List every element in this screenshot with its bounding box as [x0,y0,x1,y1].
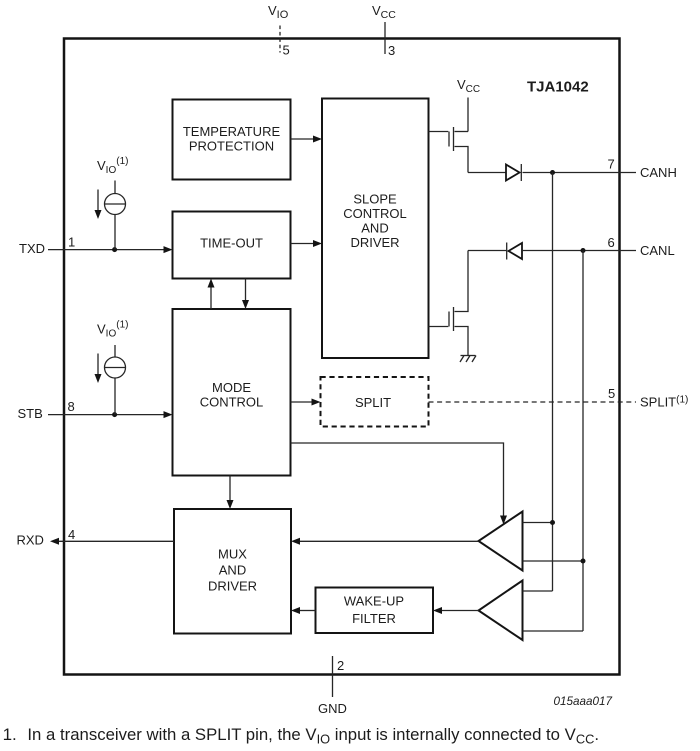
block: SLOPE CONTROL AND DRIVER [322,99,429,359]
svg-text:CONTROL: CONTROL [343,206,407,221]
arrowhead out of RXD [50,538,59,545]
transistor Q2 drain wire up to CANL [455,251,469,312]
svg-text:2: 2 [337,658,344,673]
arrowhead into WAKE-UP FILTER [433,607,442,614]
current source I2 bar [105,367,126,369]
pin 2 GND stub wire [332,656,334,697]
op-amp U2 output wire to WAKE-UP FILTER [442,610,479,612]
outer IC boundary box [64,39,620,675]
transistor Q1 channel bar [453,127,455,151]
svg-text:CONTROL: CONTROL [200,395,264,410]
op-amp U1 output wire to MUX [300,540,479,542]
svg-text:DRIVER: DRIVER [208,579,257,594]
wire STB input line [48,414,165,416]
node junction on TXD line [112,247,117,252]
op-amp U2 input wire from CANH bus [523,590,553,592]
pin 5 VIO dashed stub wire [279,26,281,53]
vertical bus wire from CANH to receivers [552,173,554,592]
wire TXD input line [48,249,165,251]
svg-text:4: 4 [68,527,75,542]
arrowhead down into MUX [227,500,234,509]
transistor Q2 channel bar [453,307,455,331]
current source I2 bottom wire to STB line [114,378,116,415]
svg-text:STB: STB [18,406,43,421]
wire MODE CONTROL down to MUX [229,476,231,502]
wire RXD output line [58,540,174,542]
svg-text:1: 1 [68,235,75,250]
op-amp U1 input wire from CANL bus [523,560,584,562]
node junction CANL column [581,248,586,253]
svg-text:AND: AND [219,563,246,578]
op-amp U1 receiver comparator [479,512,523,571]
current source I1 circle [105,194,126,215]
wire CANH line to border and out [523,172,637,174]
wire CANL line to border and out [522,250,636,252]
svg-text:TXD: TXD [19,241,45,256]
arrowhead into TIME-OUT [164,246,173,253]
svg-text:PROTECTION: PROTECTION [189,139,274,154]
block: MUX AND DRIVER [174,509,291,634]
arrowhead into SLOPE (from temp) [313,136,322,143]
current source I2 circle [105,357,126,378]
current direction arrow at I2 [97,354,99,376]
current source I1 top stub wire [114,181,116,194]
diode D2 cathode bar [506,243,508,260]
svg-text:3: 3 [388,43,395,58]
svg-text:CANL: CANL [640,243,675,258]
arrowhead down into MODE CONTROL [242,300,249,309]
svg-text:015aaa017: 015aaa017 [554,695,613,708]
wire MODE CONTROL up to TIME-OUT [210,286,212,309]
arrowhead into SPLIT [312,399,321,406]
diode D1 (to CANH) triangle [506,165,520,181]
transistor Q1 gate plate [448,132,450,147]
wire WAKE-UP FILTER to MUX [300,610,316,612]
svg-text:TEMPERATURE: TEMPERATURE [183,124,281,139]
svg-text:GND: GND [318,701,347,716]
ground symbol [461,355,476,357]
svg-text:AND: AND [361,221,388,236]
diode D2 wire from CANL column [468,250,506,252]
svg-text:FILTER: FILTER [352,611,396,626]
arrowhead into MODE CONTROL [164,411,173,418]
svg-text:WAKE-UP: WAKE-UP [344,593,404,608]
current direction arrow at I1 [97,190,99,212]
current source I1 bottom wire to TXD line [114,215,116,250]
svg-text:In a transceiver with a SPLIT: In a transceiver with a SPLIT pin, the V… [27,725,599,747]
op-amp U2 input wire from CANL bus [523,630,584,632]
node junction on STB line [112,412,117,417]
diode D1 wire from Q1 [468,172,506,174]
svg-text:5: 5 [608,386,615,401]
block: TIME-OUT [173,212,291,279]
transistor Q1 drain wire [455,131,469,133]
transistor Q2 gate plate [448,312,450,327]
svg-text:TJA1042: TJA1042 [527,79,589,96]
op-amp U2 wake-up comparator [479,581,523,641]
current source I2 top stub wire [114,345,116,357]
arrowhead into SLOPE (from time-out) [313,240,322,247]
transistor Q2 (low-side) gate wire from SLOPE [429,326,449,328]
node junction CANH column [550,170,555,175]
arrowhead into MUX from WAKE-UP FILTER [291,607,300,614]
op-amp U1 input wire from CANH bus [523,522,553,524]
arrowhead down into comparator top edge [500,516,507,525]
arrowhead up into TIME-OUT [208,279,215,288]
svg-text:RXD: RXD [17,533,44,548]
svg-text:MUX: MUX [218,547,247,562]
svg-text:6: 6 [608,235,615,250]
svg-text:8: 8 [68,399,75,414]
svg-text:1.: 1. [3,725,17,744]
svg-text:SLOPE: SLOPE [353,192,397,207]
wire TEMPERATURE PROTECTION to SLOPE [291,138,315,140]
svg-text:TIME-OUT: TIME-OUT [200,236,263,251]
svg-text:5: 5 [283,43,290,58]
block: MODE CONTROL [173,309,291,476]
svg-text:CANH: CANH [640,165,677,180]
diode D1 cathode bar [520,164,522,181]
block: TEMPERATURE PROTECTION [173,100,291,180]
current source I1 bar [105,203,126,205]
svg-text:MODE: MODE [212,380,251,395]
transistor Q1 source wire to CANH [455,147,469,173]
transistor Q1 gate wire from SLOPE [429,131,449,133]
svg-text:7: 7 [608,157,615,172]
wire MODE CONTROL to SPLIT [291,401,313,403]
block: WAKE-UP FILTER [316,588,434,634]
svg-text:DRIVER: DRIVER [350,235,399,250]
vertical bus wire from CANL to receivers [582,251,584,632]
wire MODE CONTROL right to receiver comparator [291,443,504,517]
arrowhead into MUX right edge [291,538,300,545]
dashed SPLIT output wire to pin 5 [429,401,637,403]
block: SPLIT (dashed) [321,377,429,427]
diode D2 (from CANL) triangle [509,243,523,259]
node junction U1-CANL bus [581,559,586,564]
node junction U1-CANH bus [550,520,555,525]
wire TIME-OUT to SLOPE [291,243,315,245]
pin 3 VCC stub wire [384,22,386,54]
transistor Q1 VCC stub wire [467,98,469,132]
transistor Q2 source wire down to ground [455,327,469,356]
wire TIME-OUT down to MODE CONTROL [245,279,247,302]
svg-text:SPLIT: SPLIT [355,395,391,410]
